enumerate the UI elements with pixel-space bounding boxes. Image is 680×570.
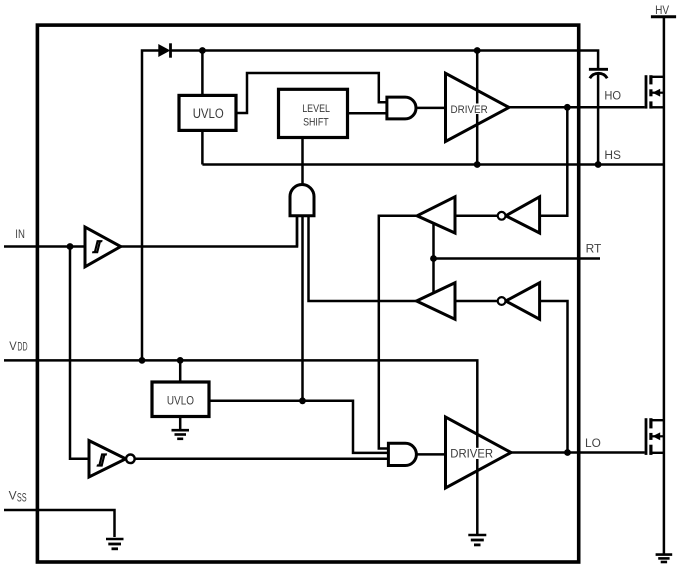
wire VB rail feed through DRIVER1 to HS <box>476 51 479 165</box>
wire IN node down to lower Schmitt inverter <box>70 247 89 459</box>
buffer U2 oscillator upper left <box>417 197 455 233</box>
ground half-bridge bottom <box>656 555 673 562</box>
inverter U3 oscillator upper right <box>498 197 540 233</box>
wire LEVEL SHIFT bottom to AND2 output <box>301 138 304 187</box>
node junction dots <box>67 47 602 456</box>
wire diode junction to UVLO1 top <box>201 51 204 96</box>
AND gate U10 vertical pulse <box>290 185 314 216</box>
wire RT node to RT pin <box>434 257 601 260</box>
label text DRIVER2 <box>450 446 495 460</box>
svg-text:V: V <box>9 341 17 353</box>
label pin IN <box>15 229 25 241</box>
LEVEL SHIFT block U7 <box>279 89 348 137</box>
label text UVLO upper <box>193 106 224 121</box>
wire top supply rail VB <box>172 51 599 69</box>
svg-text:DRIVER: DRIVER <box>450 446 493 460</box>
svg-text:HV: HV <box>655 5 669 17</box>
UVLO block U6 upper <box>179 95 236 130</box>
wire VDD rail <box>4 360 477 431</box>
wire inverter U5 output to buffer U4 input <box>455 300 506 303</box>
ground below UVLO2 <box>172 430 190 439</box>
diode D1 bootstrap <box>159 43 171 57</box>
wire LO node feedback up to inverter U5 input <box>541 301 568 453</box>
svg-text:V: V <box>9 491 17 503</box>
label text UVLO lower <box>167 394 194 407</box>
wire UVLO2 bottom to ground <box>179 417 182 431</box>
wire UVLO1 output to AND1 upper input <box>236 73 389 113</box>
svg-text:SHIFT: SHIFT <box>303 116 329 128</box>
label pin HS <box>604 150 621 162</box>
svg-text:DRIVER: DRIVER <box>451 104 488 116</box>
transistor Q1 high side MOSFET <box>646 75 664 108</box>
wire VDD riser to bootstrap diode <box>142 51 159 361</box>
inverter U5 oscillator lower right <box>498 283 540 319</box>
label pin LO <box>585 438 601 450</box>
svg-text:DD: DD <box>17 342 27 354</box>
wire UVLO2 output to AND3 middle input <box>209 401 389 453</box>
svg-text:RT: RT <box>586 244 602 256</box>
label text LEVEL SHIFT <box>302 103 330 128</box>
wire AND3 output to DRIVER2 input <box>416 453 446 456</box>
svg-text:UVLO: UVLO <box>193 106 224 121</box>
wire DRIVER2 output to LO pin and gate <box>511 451 645 454</box>
label text DRIVER1 <box>449 104 490 116</box>
svg-text:UVLO: UVLO <box>167 394 194 407</box>
wire inverter U3 output to buffer U2 input <box>455 215 506 218</box>
wire AND1 output to DRIVER1 input <box>416 107 446 110</box>
wire LEVEL SHIFT output to AND1 lower input <box>348 112 389 115</box>
wire lower buffer U4 output to AND2 input bend <box>309 216 418 301</box>
wire AND2 left input from IN line <box>296 216 299 247</box>
label pin VDD <box>9 341 27 354</box>
wire bootstrap cap to HS rail <box>597 74 600 165</box>
IC boundary box <box>37 25 578 562</box>
wire RT node vertical between oscillator buffers <box>432 224 435 294</box>
ground at VSS <box>106 539 124 549</box>
label pin VSS <box>9 491 27 505</box>
wire buffer output to AND gate bend <box>121 216 298 247</box>
wire VDD junction down to UVLO2 top <box>179 360 182 382</box>
svg-text:IN: IN <box>15 229 25 241</box>
buffer U4 oscillator lower left <box>417 283 456 319</box>
wire UVLO1 bottom to HS rail <box>201 130 204 164</box>
svg-text:SS: SS <box>17 493 27 505</box>
wire HO node feedback down to inverter U3 input <box>541 107 567 216</box>
driver U14 low side DRIVER <box>446 417 512 488</box>
label pin HO <box>604 91 621 103</box>
wire AND2 middle input down to UVLO2 output node <box>301 216 304 401</box>
wire HS rail <box>202 163 664 166</box>
svg-text:LEVEL: LEVEL <box>302 103 330 115</box>
AND gate U13 bottom <box>388 443 416 465</box>
wire VSS pin to internal ground <box>4 510 115 537</box>
AND gate U8 top <box>387 97 416 119</box>
wire HV supply down the half-bridge to ground <box>663 17 666 554</box>
Schmitt inverter U11 lower <box>89 441 135 477</box>
capacitor C1 bootstrap <box>589 69 608 78</box>
ground below DRIVER2 <box>468 535 486 545</box>
wire IN pin to buffer input <box>4 245 85 248</box>
wire Schmitt inverter output to AND3 lower input <box>135 458 389 461</box>
svg-text:HS: HS <box>604 150 621 162</box>
wire VDD feed through DRIVER2 to ground <box>476 430 479 534</box>
svg-text:LO: LO <box>585 438 601 450</box>
Schmitt buffer U1 at IN <box>85 227 121 267</box>
wire DRIVER1 output to HO pin and gate <box>509 106 645 109</box>
wire buffer U2 output to left bend <box>379 216 417 449</box>
UVLO block U12 lower <box>152 382 209 417</box>
label pin RT <box>586 244 602 256</box>
HV supply rail bar <box>651 15 676 18</box>
svg-text:HO: HO <box>604 91 621 103</box>
driver U9 high side DRIVER <box>446 73 510 141</box>
transistor Q2 low side MOSFET <box>646 418 664 455</box>
label net HV <box>655 5 669 17</box>
